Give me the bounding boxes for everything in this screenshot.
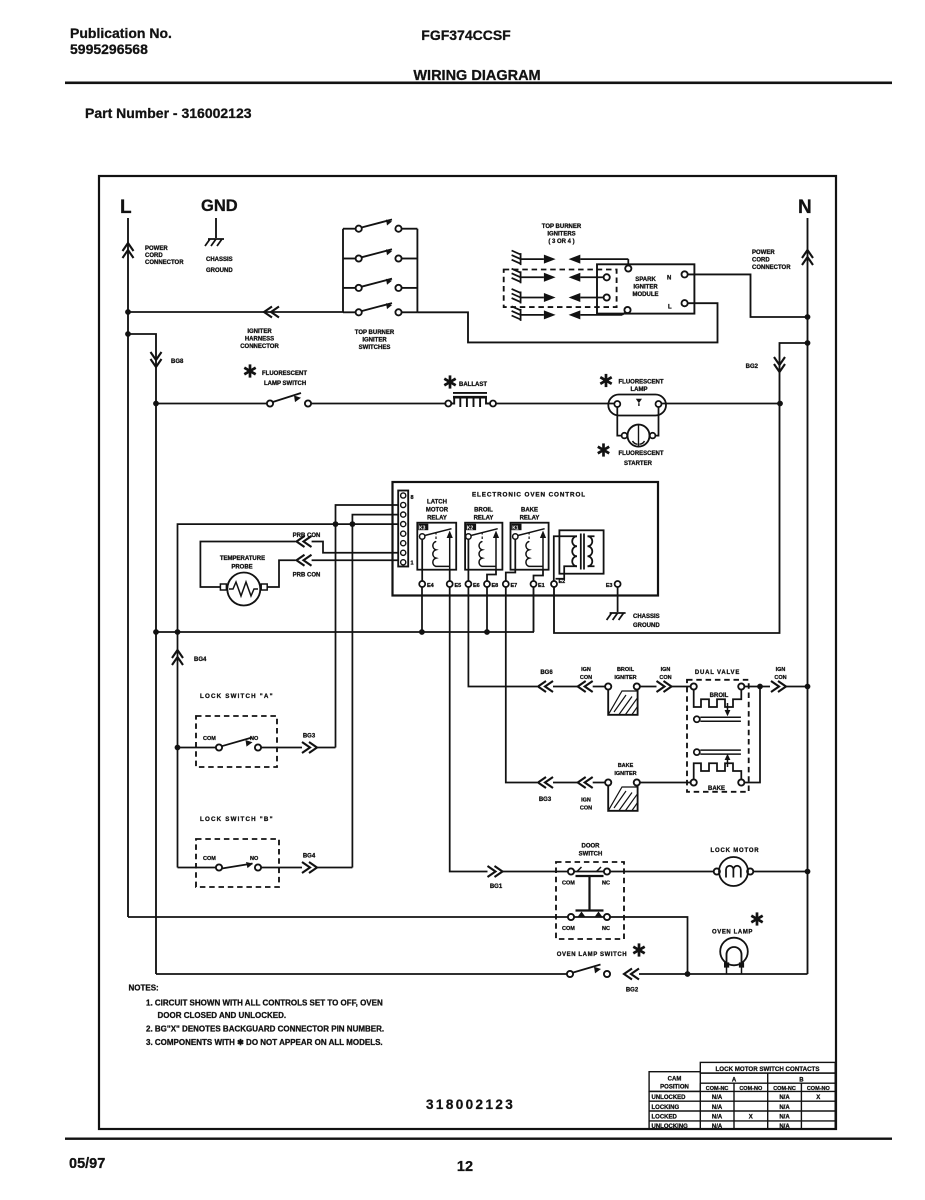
svg-text:BG1: BG1	[490, 884, 503, 890]
power cord connector L chevron	[123, 243, 134, 258]
EOC terminal E4	[421, 539, 423, 581]
svg-text:PRB CON: PRB CON	[293, 533, 321, 539]
svg-text:BAKE: BAKE	[521, 508, 538, 514]
svg-text:IGN: IGN	[776, 667, 786, 673]
svg-text:COM-NC: COM-NC	[706, 1086, 729, 1092]
junction N line y343	[805, 340, 811, 346]
svg-text:CON: CON	[580, 806, 592, 812]
svg-text:BG4: BG4	[194, 657, 207, 663]
svg-text:IGN: IGN	[581, 798, 591, 804]
wire lock A to pin7 riser	[317, 747, 336, 749]
wire L line vertical x128	[127, 218, 129, 917]
svg-text:Part Number - 316002123: Part Number - 316002123	[85, 105, 252, 121]
svg-text:BALLAST: BALLAST	[459, 382, 487, 388]
svg-text:K3: K3	[419, 525, 426, 531]
svg-text:E1: E1	[538, 583, 545, 589]
svg-text:E3: E3	[606, 583, 613, 589]
junction bus E8 riser	[484, 629, 490, 635]
wire transformer primary bottom jog	[556, 566, 578, 578]
top burner igniter 4	[512, 306, 628, 321]
broil igniter R1	[605, 683, 611, 689]
fluorescent lamp FL1	[608, 395, 666, 416]
chevron BG1 door switch feed	[488, 866, 503, 877]
junction bus x177.5	[175, 629, 181, 635]
igniter harness connector chevron	[264, 307, 279, 318]
svg-text:BG3: BG3	[539, 797, 552, 803]
svg-text:RELAY: RELAY	[520, 516, 540, 522]
fluorescent starter wires	[617, 407, 658, 436]
junction bus x156	[153, 629, 159, 635]
svg-text:OVEN LAMP: OVEN LAMP	[712, 930, 753, 936]
top burner igniter switches bank rails	[343, 229, 417, 313]
svg-text:IGNITER: IGNITER	[633, 285, 658, 291]
backguard pin chevron BG2 right	[774, 357, 785, 372]
wire pin6 from lock switch B riser	[352, 515, 398, 868]
svg-text:N/A: N/A	[779, 1124, 790, 1130]
top burner igniter switch 3	[343, 279, 417, 288]
transformer T1	[559, 530, 603, 573]
svg-text:IGN: IGN	[661, 667, 671, 673]
dual valve dashed box	[687, 680, 749, 792]
svg-text:CON: CON	[659, 675, 671, 681]
svg-text:E5: E5	[455, 583, 462, 589]
wire bake row seg1	[553, 782, 578, 784]
svg-text:UNLOCKING: UNLOCKING	[652, 1124, 689, 1130]
svg-text:BAKE: BAKE	[708, 786, 725, 792]
svg-text:K1: K1	[512, 525, 519, 531]
wire GND stub	[215, 218, 217, 238]
svg-text:LAMP SWITCH: LAMP SWITCH	[264, 381, 306, 387]
chevron BG4 lock B output	[302, 862, 317, 873]
svg-text:TOP BURNER: TOP BURNER	[542, 224, 582, 230]
svg-text:3. COMPONENTS WITH ✱ DO NOT A: 3. COMPONENTS WITH ✱ DO NOT APPEAR ON AL…	[146, 1038, 383, 1047]
fluorescent starter label	[598, 443, 609, 456]
svg-text:N/A: N/A	[712, 1095, 723, 1101]
svg-text:BAKE: BAKE	[618, 763, 634, 769]
svg-text:K2: K2	[467, 525, 474, 531]
svg-text:N/A: N/A	[779, 1105, 790, 1111]
svg-text:NOTES:: NOTES:	[129, 984, 159, 993]
svg-text:IGN: IGN	[581, 667, 591, 673]
top burner igniter 2	[512, 269, 604, 284]
electronic oven control box U2	[393, 482, 659, 596]
broil row chevron IGN CON right	[657, 681, 672, 692]
wire lock A output	[261, 747, 302, 749]
wire upper NC to lock motor	[610, 871, 714, 873]
wire bake row seg2	[593, 782, 605, 784]
chevron BG2 oven lamp	[624, 969, 639, 980]
svg-text:NO: NO	[250, 856, 259, 862]
EOC terminal E3	[615, 581, 621, 587]
svg-text:BG4: BG4	[303, 854, 316, 860]
svg-text:TOP BURNER: TOP BURNER	[355, 330, 395, 336]
wire oven lamp row left	[156, 973, 567, 975]
svg-text:HARNESS: HARNESS	[245, 337, 274, 343]
svg-text:POSITION: POSITION	[660, 1085, 689, 1091]
lock switch B S3	[178, 867, 216, 869]
svg-text:CONNECTOR: CONNECTOR	[145, 260, 184, 266]
svg-text:N/A: N/A	[712, 1124, 723, 1130]
svg-text:COM-NO: COM-NO	[807, 1086, 831, 1092]
temperature probe loop wires	[200, 542, 295, 588]
wire broil row seg4	[672, 686, 691, 688]
svg-text:BROIL: BROIL	[474, 508, 493, 514]
svg-text:ELECTRONIC OVEN CONTROL: ELECTRONIC OVEN CONTROL	[472, 492, 586, 499]
svg-text:BG2: BG2	[746, 364, 759, 370]
relay K2 broil relay box	[465, 523, 502, 570]
lock switch B dashed box	[196, 839, 279, 887]
wire bake row seg3	[640, 782, 691, 784]
svg-text:FLUORESCENT: FLUORESCENT	[619, 380, 664, 386]
fluorescent lamp switch S1	[267, 400, 273, 406]
header rule	[65, 82, 892, 85]
svg-text:N/A: N/A	[712, 1105, 723, 1111]
wire E8 riser	[486, 587, 488, 632]
svg-text:FLUORESCENT: FLUORESCENT	[619, 451, 664, 457]
backguard pin chevron BG4 lock feed	[172, 650, 183, 665]
svg-text:L: L	[120, 197, 132, 218]
svg-text:LATCH: LATCH	[427, 500, 447, 506]
junction x156 fluorescent tap	[153, 401, 159, 407]
svg-text:LOCK MOTOR SWITCH CONTACTS: LOCK MOTOR SWITCH CONTACTS	[716, 1066, 820, 1073]
svg-text:CONNECTOR: CONNECTOR	[240, 344, 279, 350]
wire broil row seg1	[553, 686, 578, 688]
wire top bus y312 from L to switch bank	[128, 311, 344, 313]
svg-text:BROIL: BROIL	[617, 667, 635, 673]
wire N line vertical x807.5	[807, 218, 809, 974]
backguard pin chevron BG8	[151, 352, 162, 367]
lock switch A S2	[178, 747, 216, 749]
svg-text:COM: COM	[203, 856, 216, 862]
svg-text:COM-NC: COM-NC	[773, 1086, 796, 1092]
probe connector chevron top PRB CON	[297, 536, 312, 547]
svg-text:IGNITER: IGNITER	[362, 338, 387, 344]
svg-text:X: X	[816, 1095, 820, 1101]
svg-text:UNLOCKED: UNLOCKED	[652, 1095, 687, 1101]
junction door-lamp	[685, 971, 691, 977]
relay K3 latch motor relay box	[417, 523, 456, 570]
temperature probe RT1	[220, 584, 226, 590]
svg-text:12: 12	[457, 1159, 473, 1175]
svg-text:A: A	[732, 1078, 737, 1084]
svg-text:DOOR CLOSED AND UNLOCKED.: DOOR CLOSED AND UNLOCKED.	[158, 1011, 287, 1020]
dual valve bake plunger arrow	[727, 759, 729, 767]
svg-text:GROUND: GROUND	[633, 623, 660, 629]
wire door feed seg	[503, 871, 568, 873]
svg-text:DOOR: DOOR	[582, 844, 601, 850]
dual valve broil plunger arrow	[727, 703, 729, 711]
svg-text:BG3: BG3	[303, 734, 316, 740]
junction N line y317	[805, 314, 811, 320]
svg-text:E4: E4	[427, 583, 435, 589]
dual valve broil terminal right	[738, 683, 744, 689]
wire E5 riser to door switch	[450, 587, 488, 872]
svg-text:L: L	[668, 305, 672, 311]
svg-text:CORD: CORD	[752, 258, 770, 264]
svg-text:E2: E2	[559, 579, 566, 585]
svg-text:1. CIRCUIT SHOWN WITH ALL CON: 1. CIRCUIT SHOWN WITH ALL CONTROLS SET T…	[146, 999, 383, 1008]
ballast label	[444, 375, 455, 388]
svg-text:SWITCHES: SWITCHES	[359, 345, 391, 351]
svg-text:BG6: BG6	[540, 670, 553, 676]
svg-text:POWER: POWER	[145, 246, 168, 252]
svg-text:FLUORESCENT: FLUORESCENT	[262, 371, 307, 377]
junction fluorescent to N branch	[777, 401, 783, 407]
fluorescent lamp label	[600, 374, 611, 387]
wire branch to x156	[128, 334, 156, 974]
wire oven lamp row mid	[639, 973, 808, 975]
bake row chevron BG3	[538, 777, 553, 788]
wire E3 to chassis ground	[617, 587, 619, 612]
wire lock motor to N	[753, 871, 807, 873]
svg-text:OVEN LAMP SWITCH: OVEN LAMP SWITCH	[557, 952, 628, 958]
svg-text:MOTOR: MOTOR	[426, 508, 449, 514]
svg-text:8: 8	[411, 495, 414, 501]
svg-text:LOCK MOTOR: LOCK MOTOR	[711, 848, 760, 854]
wire fluorescent row y403.5	[156, 403, 780, 405]
wire chevron top to pin2	[312, 542, 399, 553]
svg-text:BROIL: BROIL	[710, 693, 729, 699]
bottom rule	[65, 1138, 892, 1140]
EOC connector strip P1	[398, 491, 408, 567]
svg-text:COM-NO: COM-NO	[739, 1086, 763, 1092]
svg-text:COM: COM	[562, 881, 575, 887]
svg-text:B: B	[799, 1078, 804, 1084]
dual valve broil coil	[694, 690, 742, 707]
svg-text:CHASSIS: CHASSIS	[206, 257, 233, 263]
svg-text:N/A: N/A	[779, 1095, 790, 1101]
svg-text:CONNECTOR: CONNECTOR	[752, 265, 791, 271]
wire lock B output	[261, 867, 302, 869]
svg-text:RELAY: RELAY	[427, 516, 447, 522]
top burner igniter 1	[512, 251, 629, 266]
svg-text:POWER: POWER	[752, 250, 775, 256]
top burner igniter switch 4	[343, 303, 417, 312]
svg-text:N: N	[667, 276, 671, 282]
svg-text:COM: COM	[203, 736, 216, 742]
svg-text:GND: GND	[201, 197, 238, 215]
svg-text:FGF374CCSF: FGF374CCSF	[421, 27, 511, 43]
dual valve bake terminal right	[738, 779, 744, 785]
lock switch A dashed box	[196, 716, 277, 767]
junction lock A feed	[175, 745, 181, 751]
junction L line to x156 branch	[125, 331, 131, 337]
wire pin7 from lock switch A riser	[336, 505, 399, 748]
wire main bus y632	[156, 587, 534, 632]
door switch mechanical link	[576, 876, 604, 911]
svg-text:BG2: BG2	[626, 988, 639, 994]
svg-text:5995296568: 5995296568	[70, 41, 148, 57]
svg-text:CAM: CAM	[668, 1077, 682, 1083]
wire transformer primary top to E2	[554, 536, 577, 581]
svg-text:IGNITER: IGNITER	[614, 675, 636, 681]
top burner igniter switch 2	[343, 249, 417, 258]
svg-text:IGNITER: IGNITER	[247, 329, 272, 335]
svg-text:E6: E6	[473, 583, 480, 589]
svg-text:LOCKED: LOCKED	[652, 1115, 678, 1121]
wire right vertical x779.5 N branch	[554, 343, 808, 633]
dual valve broil terminal left	[691, 683, 697, 689]
junction lock motor N line	[805, 869, 811, 875]
fluorescent starter FS1	[622, 433, 628, 439]
wire switch bank to SIM L: right jog	[417, 303, 717, 342]
wire broil row to N	[786, 686, 808, 688]
door switch upper contact COM-NC	[568, 868, 574, 874]
svg-text:2. BG"X" DENOTES BACKGUARD CO: 2. BG"X" DENOTES BACKGUARD CONNECTOR PIN…	[146, 1025, 384, 1034]
EOC terminal E5	[449, 570, 451, 581]
broil row chevron BG6	[538, 681, 553, 692]
main border	[99, 176, 836, 1129]
svg-text:IGNITER: IGNITER	[614, 771, 636, 777]
svg-text:PRB CON: PRB CON	[293, 573, 321, 579]
broil row chevron IGN CON left	[578, 681, 593, 692]
svg-text:LOCKING: LOCKING	[652, 1105, 680, 1111]
wire pin5 temp probe outer loop top	[178, 524, 399, 867]
svg-text:CON: CON	[774, 675, 786, 681]
bake row chevron IGN CON	[578, 777, 593, 788]
wire E7 riser to bake row	[506, 587, 537, 783]
svg-text:NC: NC	[602, 881, 610, 887]
svg-text:318002123: 318002123	[426, 1097, 515, 1112]
page header	[65, 25, 892, 121]
svg-text:RELAY: RELAY	[474, 516, 494, 522]
svg-text:SPARK: SPARK	[635, 277, 656, 283]
svg-text:IGNITERS: IGNITERS	[547, 232, 575, 238]
EOC terminal E7	[506, 539, 516, 581]
svg-text:CORD: CORD	[145, 253, 163, 259]
chevron BG3 lock A output	[302, 742, 317, 753]
svg-text:CHASSIS: CHASSIS	[633, 614, 660, 620]
probe connector chevron bottom PRB CON	[297, 555, 312, 566]
svg-text:Publication No.: Publication No.	[70, 25, 172, 41]
bake igniter R2	[605, 779, 611, 785]
svg-text:05/97: 05/97	[69, 1156, 105, 1172]
EOC terminal E8	[487, 570, 496, 581]
wire SIM N to N line	[688, 274, 808, 317]
wire chevron bottom to pin1	[312, 559, 399, 561]
junction pin6 riser on y524	[350, 521, 356, 527]
svg-text:( 3 OR 4 ): ( 3 OR 4 )	[548, 239, 574, 245]
ballast L1	[445, 401, 451, 407]
power cord connector N chevron	[802, 250, 813, 265]
door switch lower contact COM-NC	[568, 914, 574, 920]
broil row chevron IGN CON far right	[771, 681, 786, 692]
junction broil row N line	[805, 684, 811, 690]
chassis ground symbol (GND)	[205, 239, 224, 246]
svg-text:BG8: BG8	[171, 359, 184, 365]
svg-text:NO: NO	[250, 736, 259, 742]
relay K1 bake relay box	[511, 523, 549, 570]
wire lower NC to lamp junction	[610, 917, 687, 974]
wire E4 riser	[421, 587, 423, 632]
spark igniter module box U1	[597, 264, 694, 313]
svg-text:E7: E7	[511, 583, 518, 589]
svg-text:STARTER: STARTER	[624, 461, 653, 467]
lock motor switch contacts table	[649, 1062, 835, 1129]
svg-text:N/A: N/A	[779, 1115, 790, 1121]
svg-text:X: X	[749, 1115, 753, 1121]
svg-text:1: 1	[411, 561, 414, 567]
junction broil-bake link	[757, 684, 763, 690]
svg-text:LOCK SWITCH "B": LOCK SWITCH "B"	[200, 816, 274, 823]
svg-text:GROUND: GROUND	[206, 268, 233, 274]
svg-text:N/A: N/A	[712, 1115, 723, 1121]
door switch dashed box	[556, 862, 624, 939]
dual valve bake coil	[694, 763, 742, 779]
EOC terminal E1	[534, 570, 544, 581]
svg-text:CON: CON	[580, 675, 592, 681]
svg-text:LOCK SWITCH "A": LOCK SWITCH "A"	[200, 693, 274, 700]
wire broil valve to junction	[744, 686, 770, 688]
wire E6 riser to broil row	[468, 587, 537, 687]
svg-text:TEMPERATURE: TEMPERATURE	[220, 556, 265, 562]
wire broil-bake link vertical	[744, 687, 760, 783]
EOC terminal E6	[467, 539, 469, 581]
svg-text:SWITCH: SWITCH	[579, 852, 603, 858]
chassis ground symbol (E3)	[607, 613, 626, 620]
top burner igniter 3	[512, 289, 604, 304]
svg-text:E8: E8	[492, 583, 499, 589]
svg-text:COM: COM	[562, 926, 575, 932]
wire broil row seg2	[593, 686, 605, 688]
junction L-bus	[125, 309, 131, 315]
svg-text:N: N	[798, 197, 812, 218]
svg-text:MODULE: MODULE	[633, 292, 659, 298]
svg-text:DUAL VALVE: DUAL VALVE	[695, 670, 740, 676]
wire broil row seg3	[640, 686, 657, 688]
svg-text:PROBE: PROBE	[231, 565, 252, 571]
junction bus E4 riser	[419, 629, 425, 635]
top burner igniter switch 1	[343, 220, 417, 229]
fluorescent lamp switch label	[244, 364, 255, 377]
junction pin7 riser on y524	[333, 521, 339, 527]
svg-text:NC: NC	[602, 926, 610, 932]
dashed box optional igniters	[504, 270, 617, 308]
oven lamp switch S4	[567, 971, 573, 977]
EOC terminal E2	[551, 581, 557, 587]
wire lock B to pin6 riser	[317, 867, 352, 869]
svg-text:LAMP: LAMP	[631, 387, 648, 393]
dual valve bake terminal left	[691, 779, 697, 785]
wire L line to door lower COM	[128, 916, 568, 918]
